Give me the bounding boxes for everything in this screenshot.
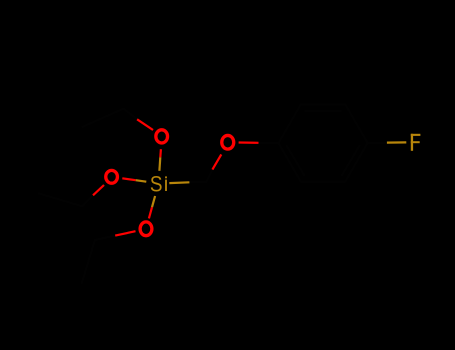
svg-text:S: S: [150, 172, 163, 197]
bond ring-F gold half: [387, 141, 406, 143]
wire: carbon skeleton (near-invisible dark) : ethyl tail of O1: [82, 109, 138, 128]
wire: benzene ring outline: [279, 105, 368, 182]
bond O3-CH2(ethyl) red half: [115, 231, 135, 235]
wire: benzene inner double bond top: [305, 110, 342, 112]
wire: ring carbon half of C-F bond: [368, 142, 387, 144]
bond Si-O2 red half: [122, 178, 135, 180]
bond O4-ring red half: [239, 141, 259, 144]
bond Si-O1 red half: [159, 149, 162, 157]
atom Si (silicon label): [150, 172, 167, 197]
bond Si-O3 gold half: [152, 196, 155, 207]
bond O1-CH2(ethyl) red half: [137, 119, 153, 130]
wire: benzene inner double bond lower-right: [341, 145, 360, 176]
atom O4 (ether oxygen): [222, 135, 234, 149]
bond Si-O2 gold half: [136, 180, 147, 182]
wire: benzene inner double bond lower-left: [286, 145, 305, 176]
wire: ethyl tail of O3: [82, 236, 116, 284]
wire: CH2 bridge carbon half (Si-CH2 and CH2-O4): [189, 170, 212, 183]
atom O1 (top oxygen): [156, 130, 168, 143]
wire: ethyl tail of O2: [38, 193, 93, 206]
atom O3 (bottom oxygen): [140, 222, 152, 236]
atom F (fluorine label): [411, 134, 421, 151]
atom O2 (left oxygen): [106, 170, 118, 183]
bond Si-O3 red half: [149, 207, 152, 218]
bond O2-CH2(ethyl) red half: [93, 185, 104, 195]
bond Si-CH2 gold half: [169, 181, 189, 184]
bond Si-O1 gold half: [158, 157, 161, 171]
bond CH2-O4 red half: [212, 154, 221, 169]
wire: O4 to ring carbon half: [259, 142, 279, 145]
